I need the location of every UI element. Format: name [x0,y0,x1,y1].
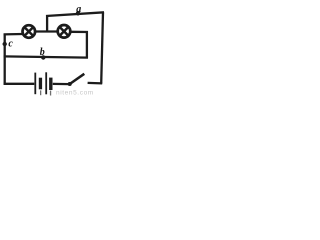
wire: top rail (riser corner to top-right corner) [46,12,104,16]
wire: segment between lamp L1 and lamp L2 [35,30,58,32]
lamp L2 (circle with X) [58,25,71,38]
wire: middle rail (right drop back to left rail) [4,56,88,57]
wire: right drop from lamp row down to middle rail [86,31,88,58]
wire: bottom rail right segment (switch contact to bottom-right corner) [88,82,103,85]
wire: lamp L2 right lead to the right drop [70,31,88,34]
node b (junction dot on middle rail) [41,55,45,59]
node c label [8,39,13,50]
svg-text:b: b [40,47,45,58]
battery (two cells) [34,72,52,94]
switch S (open knife switch) [68,74,85,86]
wire: bottom rail left segment (left rail to battery) [4,83,35,85]
wire: riser from junction between lamps up to top rail [46,15,48,32]
svg-text:c: c [8,39,13,50]
wire: right vertical rail (top-right corner down to bottom-right corner) [101,12,103,83]
node a (junction dot on top rail) [76,11,80,15]
node b label [40,47,45,58]
lamp L1 (circle with X) [23,25,36,38]
svg-text:niten5.com: niten5.com [56,90,94,96]
node c (junction dot on left rail) [2,42,6,46]
node a label [76,4,81,15]
wire: bottom rail middle segment (battery to switch) [53,83,70,85]
wire: left vertical rail (lamp row corner down to bottom rail) [4,34,6,85]
svg-text:a: a [76,4,81,15]
wire: top-left horizontal from left rail to lamp L1 [4,33,23,36]
